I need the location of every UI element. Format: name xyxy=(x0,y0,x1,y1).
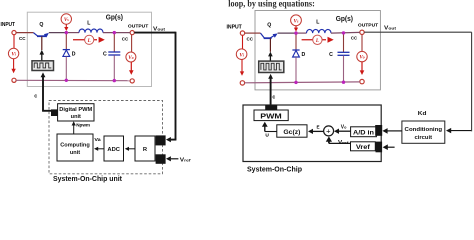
svg-text:Vref: Vref xyxy=(356,145,371,151)
svg-text:INPUT: INPUT xyxy=(227,24,242,30)
svg-text:Vout: Vout xyxy=(384,25,397,31)
svg-text:PWM: PWM xyxy=(260,113,282,120)
svg-text:Va: Va xyxy=(94,137,101,142)
svg-text:Vref: Vref xyxy=(180,158,192,164)
svg-text:OUTPUT: OUTPUT xyxy=(128,24,148,30)
svg-text:C: C xyxy=(329,52,333,58)
svg-text:ADC: ADC xyxy=(107,147,120,153)
svg-text:Q: Q xyxy=(39,22,43,28)
svg-text:CC: CC xyxy=(122,36,129,41)
svg-text:D: D xyxy=(72,51,76,57)
svg-text:c: c xyxy=(272,94,275,100)
svg-text:Vo: Vo xyxy=(341,125,347,131)
svg-text:System-On-Chip: System-On-Chip xyxy=(247,167,302,174)
svg-text:L: L xyxy=(316,19,320,25)
svg-text:Kd: Kd xyxy=(418,111,427,117)
svg-text:unit: unit xyxy=(71,114,81,120)
svg-text:L: L xyxy=(87,20,91,26)
svg-text:INPUT: INPUT xyxy=(1,22,16,28)
svg-text:Gc(z): Gc(z) xyxy=(283,129,300,136)
svg-text:System-On-Chip unit: System-On-Chip unit xyxy=(53,176,123,183)
svg-text:CC: CC xyxy=(351,35,358,40)
svg-text:Npwm: Npwm xyxy=(76,123,90,128)
svg-text:CC: CC xyxy=(19,36,26,41)
svg-text:Gp(s): Gp(s) xyxy=(106,15,123,22)
svg-text:D: D xyxy=(302,52,306,58)
svg-text:OUTPUT: OUTPUT xyxy=(358,23,378,29)
svg-text:Gp(s): Gp(s) xyxy=(336,14,354,23)
svg-text:A/D in: A/D in xyxy=(353,130,374,136)
svg-text:Vref: Vref xyxy=(338,140,349,146)
svg-text:E: E xyxy=(317,125,320,130)
svg-text:+: + xyxy=(326,127,331,136)
svg-text:Q: Q xyxy=(267,23,271,29)
svg-text:circuit: circuit xyxy=(415,135,433,141)
svg-text:Digital PWM: Digital PWM xyxy=(59,107,92,113)
svg-text:unit: unit xyxy=(70,150,80,156)
svg-text:Conditioning: Conditioning xyxy=(405,127,443,133)
svg-text:L: L xyxy=(87,39,91,44)
svg-text:Vout: Vout xyxy=(153,26,166,32)
svg-text:L: L xyxy=(315,39,319,44)
svg-text:C: C xyxy=(103,51,107,57)
svg-text:loop, by using equations:: loop, by using equations: xyxy=(228,0,314,10)
svg-text:c: c xyxy=(34,93,37,99)
svg-text:Computing: Computing xyxy=(60,142,90,148)
svg-text:CC: CC xyxy=(247,37,254,42)
svg-text:U: U xyxy=(265,133,269,139)
